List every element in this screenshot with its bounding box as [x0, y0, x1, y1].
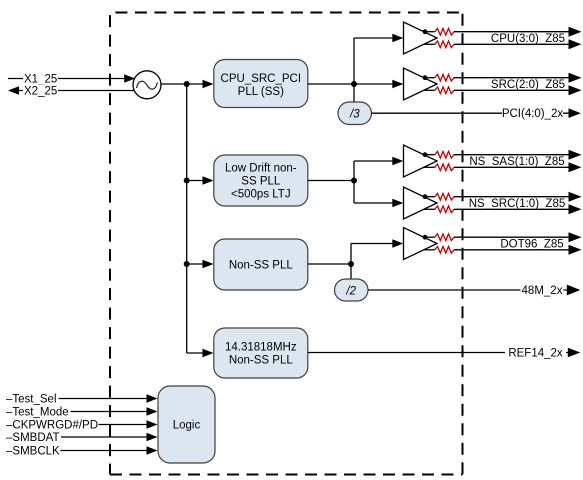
svg-text:<500ps LTJ: <500ps LTJ: [231, 189, 291, 201]
svg-text:DOT96_Z85: DOT96_Z85: [500, 238, 563, 250]
svg-text:Low Drift non-: Low Drift non-: [225, 163, 297, 175]
svg-text:48M_2x: 48M_2x: [522, 285, 563, 297]
svg-text:SRC(2:0)_Z85: SRC(2:0)_Z85: [491, 79, 565, 91]
svg-text:/2: /2: [345, 285, 356, 297]
svg-text:PLL (SS): PLL (SS): [238, 86, 284, 98]
svg-text:Non-SS PLL: Non-SS PLL: [229, 355, 294, 367]
svg-text:Logic: Logic: [173, 420, 201, 432]
svg-text:–Test_Mode: –Test_Mode: [6, 406, 69, 418]
svg-text:/3: /3: [349, 108, 360, 120]
svg-text:–CKPWRGD#/PD: –CKPWRGD#/PD: [6, 419, 98, 431]
svg-text:14.31818MHz: 14.31818MHz: [225, 342, 297, 354]
svg-text:NS_SAS(1:0)_Z85: NS_SAS(1:0)_Z85: [469, 156, 564, 168]
svg-text:–SMBDAT: –SMBDAT: [6, 432, 59, 444]
svg-text:CPU(3:0)_Z85: CPU(3:0)_Z85: [491, 33, 565, 45]
svg-text:PCI(4:0)_2x: PCI(4:0)_2x: [502, 108, 564, 120]
svg-text:SS PLL: SS PLL: [241, 176, 281, 188]
svg-text:REF14_2x: REF14_2x: [508, 347, 563, 359]
svg-text:X2_25: X2_25: [24, 85, 57, 97]
svg-text:–Test_Sel: –Test_Sel: [6, 393, 57, 405]
svg-text:–SMBCLK: –SMBCLK: [6, 445, 60, 457]
svg-text:NS_SRC(1:0)_Z85: NS_SRC(1:0)_Z85: [469, 198, 566, 210]
svg-text:X1_25: X1_25: [24, 73, 57, 85]
svg-text:Non-SS PLL: Non-SS PLL: [229, 260, 294, 272]
svg-text:CPU_SRC_PCI: CPU_SRC_PCI: [221, 73, 302, 85]
